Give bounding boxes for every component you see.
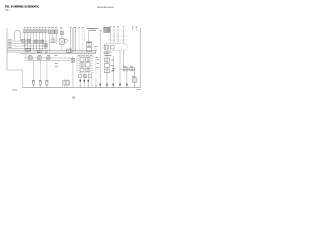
- connector CN2 (dashed outline): [103, 44, 128, 50]
- switch S2 throw (diagonal): [23, 44, 27, 47]
- relay K9 below CB1: [88, 75, 91, 78]
- wire: lower run 1: [24, 57, 71, 59]
- starter relay K4: [26, 48, 31, 51]
- wire: harness riser A2: [71, 28, 73, 52]
- wire: right accessory link: [120, 68, 136, 70]
- inline switch S9 on run: [37, 57, 41, 60]
- lamp E2 to ground rail: [39, 60, 42, 87]
- wire: riser x114 to CN2: [113, 29, 115, 44]
- wire: dashed link lower right: [108, 39, 128, 41]
- solenoid Y1: [104, 58, 114, 62]
- wire: text block lead down: [88, 31, 90, 43]
- relay K10: [123, 66, 128, 71]
- wire: riser x127 to ground: [126, 71, 128, 88]
- wire: solenoid chain to ground: [106, 50, 108, 87]
- wire: dashed riser x82: [82, 28, 84, 52]
- pin ticks left side of CB1: [77, 58, 79, 70]
- label top-right of CB1: [96, 56, 98, 58]
- lamp E1 to ground rail: [32, 60, 35, 87]
- junction dots on bus: [26, 50, 50, 52]
- ammeter M1: [86, 42, 92, 47]
- switch S2 contact block: [22, 39, 26, 42]
- relay K11 mid: [51, 39, 55, 43]
- wire: main bus upper: [7, 50, 96, 52]
- fuse F1 with wire to bus: [24, 29, 26, 51]
- gauge P3 on bus: [45, 50, 48, 53]
- switch S7: [130, 66, 134, 71]
- regulator U1 (box with X): [60, 39, 65, 45]
- inline sender unit on run: [47, 57, 50, 59]
- fuse F8 with wire to bus: [45, 29, 47, 51]
- motor M2 (hatched) to ground: [63, 79, 70, 88]
- labels: cluster pins: [96, 60, 99, 68]
- wire: harness riser A3: [73, 28, 75, 52]
- wire: harness riser A4: [75, 28, 77, 52]
- inline blobs on cluster drops: [80, 80, 90, 82]
- ground terminal ticks on rail: [33, 84, 136, 86]
- label below rail left: [12, 89, 17, 91]
- wire: cluster left column: [72, 56, 74, 88]
- plug P2 inside CN2: [110, 45, 114, 49]
- wire: riser x120: [119, 50, 121, 87]
- pin labels above CB1: [78, 54, 92, 56]
- module A5 lower-left: [80, 68, 84, 71]
- wire: dashed lead x84: [83, 31, 85, 42]
- ground bus (bottom rail): [23, 87, 141, 89]
- relay K3 with wire down: [55, 28, 58, 44]
- relay K5: [35, 40, 39, 43]
- terminal ticks right top row: [110, 27, 138, 31]
- svg-text:Fig.1: Fig.1: [5, 9, 11, 11]
- plug P1 inside CN2: [104, 45, 108, 49]
- connector CN1 (hatched): [101, 27, 110, 32]
- main switch S1 (arch outline): [15, 30, 21, 41]
- relay K1 with wire down: [48, 28, 51, 51]
- label rows under CN2: [104, 52, 112, 55]
- module A1 upper-left: [80, 57, 84, 61]
- wire: U1 leads: [61, 35, 63, 51]
- switch S3 contact block: [27, 39, 31, 42]
- fuse F4 with wire to bus: [33, 29, 35, 51]
- fuse F7 with wire to bus: [42, 29, 44, 51]
- wire: riser x118 to CN2: [117, 29, 119, 44]
- battery BT1 plates: [94, 46, 97, 53]
- inline switch S8 on run: [28, 57, 32, 60]
- fuse F5 with wire to bus: [36, 29, 38, 51]
- wire: main bus lower: [20, 53, 96, 55]
- cluster ground drops: [80, 73, 96, 88]
- label below rail right corner: [137, 89, 141, 91]
- horn H1 (circle) right of U1: [65, 39, 68, 42]
- module A2 upper-right: [86, 57, 90, 61]
- fuse F12 on bus: [37, 50, 41, 52]
- labels left of box pair: [112, 68, 115, 70]
- label: alternator text block: [87, 28, 98, 30]
- relay K12 upper: [60, 28, 64, 35]
- connector block CB1 (dashed outline): [77, 56, 96, 72]
- wire: node 58 feed from left bus: [7, 47, 48, 48]
- fuse F2 with wire to bus: [27, 29, 29, 51]
- relay K7 below CB1: [79, 75, 82, 78]
- solenoid Y2: [104, 64, 114, 68]
- fuse F3 with wire to bus: [30, 29, 32, 51]
- wire: dashed riser x79: [78, 28, 80, 52]
- wire: right return bus (vertical): [140, 28, 142, 88]
- label row above fuse block: [24, 27, 47, 29]
- svg-text:FIG. 34 WIRING SCHEMATIC: FIG. 34 WIRING SCHEMATIC: [5, 6, 39, 9]
- sensor B0 on left column: [71, 58, 74, 62]
- wire: left supply bus (vertical): [6, 28, 8, 70]
- wire: riser x100 full height: [99, 29, 101, 88]
- wire: riser x110 to CN2: [110, 29, 112, 44]
- relay K8 below CB1: [83, 75, 86, 78]
- wire: dashed link upper right: [108, 35, 128, 37]
- wire: riser x124: [123, 50, 125, 67]
- wire: harness riser A1: [70, 28, 72, 52]
- terminal ticks top of risers: [70, 27, 77, 29]
- fuse F6 with wire to bus: [39, 29, 41, 51]
- svg-text:W2504 9F1204-00: W2504 9F1204-00: [97, 7, 114, 9]
- rectifier U2: [67, 49, 72, 53]
- wire: node 50 feed from left bus: [7, 45, 48, 46]
- wire: node 30 feed from left bus: [7, 40, 48, 41]
- fuse block F9: [86, 48, 91, 52]
- relay K6: [40, 40, 44, 43]
- wire: drop to lower runs: [25, 54, 27, 58]
- wire: main bus middle: [7, 51, 96, 53]
- labels above lower runs: [29, 55, 51, 57]
- solenoid Y3: [104, 69, 114, 73]
- labels mid lower-left: [55, 55, 58, 67]
- wire: riser x123 to CN2: [123, 29, 125, 44]
- diode module D1: [44, 44, 48, 47]
- module A3 mid-left: [80, 63, 84, 67]
- relay K2 with wire down: [51, 28, 54, 39]
- module A4 mid-right: [86, 63, 90, 67]
- wire: node 15 feed from left bus: [7, 42, 48, 43]
- wire: riser x113: [112, 56, 114, 88]
- pin ticks right side of CB1: [91, 58, 93, 70]
- module A6 lower-right: [86, 68, 90, 71]
- cluster feed stubs from bus: [80, 54, 92, 57]
- wire: lower run 2: [24, 59, 71, 61]
- lamp E3 to ground rail: [46, 60, 49, 87]
- wire: ground link y70: [7, 69, 23, 71]
- wire: ground drop x22: [22, 70, 24, 88]
- beacon E6 to ground: [132, 69, 136, 87]
